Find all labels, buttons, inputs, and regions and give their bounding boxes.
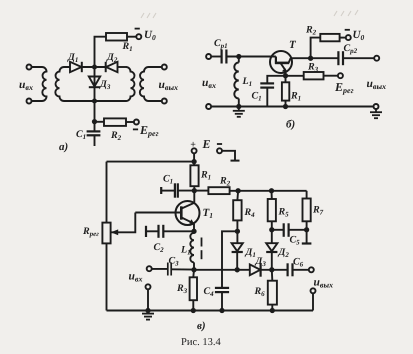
node R4 tap bbox=[236, 189, 239, 192]
transistor T (b) bbox=[270, 51, 292, 73]
node rail R3 junction bbox=[192, 309, 195, 312]
wire R4 top bbox=[236, 191, 239, 200]
node R2 tap (b) bbox=[309, 57, 312, 60]
capacitor C1 (a) plate top bbox=[87, 130, 101, 132]
transformer output winding inner (a) right box edge bbox=[126, 67, 135, 101]
wire R2 to terminal bbox=[126, 121, 134, 123]
wire R3 top bbox=[192, 270, 195, 278]
input terminal bottom (b) bbox=[206, 104, 211, 109]
wire box bottom to R2 node bbox=[94, 101, 96, 131]
wire C1 left lead bbox=[161, 190, 174, 192]
resistor R2 (v) bbox=[208, 187, 229, 194]
wire left branch vertical lower bbox=[106, 243, 108, 310]
wire R1 bottom to node bbox=[193, 186, 195, 203]
diode D1 (v) bbox=[232, 243, 243, 251]
output terminal upper (v) bbox=[309, 267, 314, 272]
wire R2 to terminal bbox=[340, 37, 346, 39]
wire bottom rail (b) bbox=[211, 106, 374, 108]
labels circuit b) bbox=[202, 25, 386, 131]
svg-text:б): б) bbox=[286, 119, 295, 131]
faint scan marks bbox=[141, 10, 358, 18]
capacitor C4 bbox=[215, 287, 229, 289]
wire R2 to top rail right bbox=[230, 190, 307, 192]
wire R7 bottom bbox=[306, 221, 308, 243]
capacitor Cp2 bbox=[337, 51, 339, 65]
node rail C4 junction bbox=[220, 309, 223, 312]
wire R3 branch bbox=[286, 75, 304, 77]
wire input to C3 bbox=[152, 268, 168, 270]
wire R6 top bbox=[271, 270, 274, 281]
node C2 junction bbox=[192, 230, 195, 233]
wire node to R2 bbox=[95, 121, 105, 123]
node R5 tap bbox=[270, 189, 273, 192]
resistor R1 (v) bbox=[190, 165, 198, 186]
node C5/R7 junction bbox=[305, 228, 308, 231]
minus sign above U0 terminal bbox=[135, 28, 140, 30]
node rail input junction bbox=[146, 309, 149, 312]
capacitor C1 (v) terminal bar bbox=[160, 187, 162, 194]
minus sign above U0 (b) bbox=[345, 29, 350, 31]
wire top right segment bbox=[118, 66, 127, 68]
resistor R5 bbox=[268, 199, 276, 221]
terminal minus supply bbox=[217, 148, 222, 153]
resistor R2 (a) bbox=[104, 118, 126, 126]
diode D3 (v) bbox=[250, 264, 260, 275]
node rail emitter junction bbox=[284, 105, 287, 108]
capacitor C1 (a) plate bottom bbox=[87, 134, 101, 136]
transformer output winding outer (a) with leads bbox=[140, 67, 162, 101]
input terminal top (a) bbox=[27, 65, 32, 70]
wire node line to D3 bbox=[194, 269, 250, 271]
node R2/C1 junction (a) bbox=[93, 120, 96, 123]
output terminal lower (v) bbox=[311, 288, 316, 293]
ground under output (b) bbox=[370, 109, 382, 118]
wire D2 to node line bbox=[271, 252, 273, 270]
resistor R1 (b) bbox=[282, 82, 289, 100]
wire R4 to D1 bbox=[236, 220, 238, 243]
wire top horizontal to left branch bbox=[107, 161, 195, 163]
node C4 branch junction bbox=[236, 230, 239, 233]
inductor L1 (v) bbox=[190, 233, 194, 263]
node emitter bottom junction bbox=[192, 268, 195, 271]
wire emitter down bbox=[285, 72, 287, 107]
wire C1 right lead bbox=[178, 190, 195, 192]
wire R3 bottom bbox=[192, 300, 194, 310]
wire bottom rail (v) bbox=[107, 310, 314, 312]
node rail L1 junction bbox=[237, 105, 240, 108]
wire left branch vertical upper bbox=[106, 162, 108, 223]
terminal U0 (a) bbox=[136, 34, 141, 39]
wire node up to R2 bbox=[311, 38, 321, 59]
wire R6 bottom bbox=[271, 305, 273, 311]
terminal E_reg (a) bbox=[134, 120, 139, 125]
node D1 junction bbox=[236, 268, 239, 271]
resistor R4 bbox=[233, 200, 241, 220]
wire top middle segment bbox=[82, 66, 106, 68]
labels circuit a) bbox=[19, 29, 178, 153]
wire from top junction down to D3 bbox=[94, 67, 96, 87]
minus sign above supply terminal bbox=[217, 143, 222, 145]
node D2 junction bbox=[270, 268, 273, 271]
labels circuit v) bbox=[82, 137, 333, 332]
wire base lead bbox=[135, 212, 180, 214]
node top junction (a) bbox=[93, 65, 96, 68]
diode D3 bbox=[89, 77, 100, 87]
terminal bar below R7 bbox=[302, 242, 312, 244]
node C5 tap bbox=[270, 228, 273, 231]
terminal E_reg (b) bbox=[338, 73, 343, 78]
inductor core dashes bbox=[201, 238, 203, 247]
capacitor Cp1 bbox=[221, 50, 223, 64]
wire Cp1 to base bbox=[226, 56, 276, 58]
minus hook end bar bbox=[231, 160, 240, 162]
node L1 tap (b) bbox=[237, 55, 240, 58]
node collector/C1/R2 junction bbox=[193, 189, 196, 192]
capacitor C5 bbox=[283, 223, 285, 237]
output terminal (b) bbox=[374, 56, 379, 61]
wire R7 top bbox=[306, 191, 308, 199]
input terminal bottom (a) bbox=[27, 99, 32, 104]
wire node to L1 bbox=[238, 57, 240, 63]
terminal U0 (b) bbox=[346, 35, 351, 40]
wire riser to R1 bbox=[95, 37, 107, 67]
wire D3 to box bottom bbox=[94, 87, 96, 101]
svg-text:Рис. 13.4: Рис. 13.4 bbox=[181, 337, 221, 348]
wire C5 right lead bbox=[289, 229, 307, 231]
wire C1 bottom stub bbox=[94, 135, 96, 146]
resistor R2 (b) bbox=[320, 34, 339, 41]
capacitor C6 bbox=[287, 263, 289, 276]
resistor R3 (v emitter) bbox=[190, 277, 197, 300]
capacitor C2 bbox=[157, 225, 159, 238]
terminal +E bbox=[192, 148, 197, 153]
wire L1 to rail bbox=[238, 99, 240, 107]
resistor R3 (b) bbox=[304, 72, 324, 79]
wire C2 right lead bbox=[163, 230, 194, 232]
wire C3 to node bbox=[171, 268, 194, 270]
wire R5 top bbox=[271, 191, 273, 199]
node box bottom junction (a) bbox=[93, 99, 96, 102]
transformer secondary winding (a) left box edge bbox=[55, 67, 70, 101]
diode D1 bbox=[70, 62, 82, 72]
node emitter junction (b) bbox=[284, 74, 287, 77]
output terminal top (a) bbox=[162, 65, 167, 70]
input terminal (b) bbox=[206, 54, 211, 59]
wire emitter down to node bbox=[193, 224, 195, 233]
svg-text:+: + bbox=[190, 140, 196, 151]
node top junction (v) bbox=[192, 160, 195, 163]
wire node to R2 bbox=[194, 190, 208, 192]
wire Cp2 to output bbox=[343, 57, 374, 59]
wire L1 to node line bbox=[193, 262, 195, 269]
wire input to Cp1 bbox=[211, 56, 221, 58]
transformer primary winding (a) with leads bbox=[31, 67, 46, 101]
wire D3 to C6 bbox=[261, 269, 288, 271]
wire C4 branch bbox=[222, 231, 237, 287]
capacitor C2 terminal bar bbox=[145, 226, 147, 237]
svg-text:в): в) bbox=[197, 320, 206, 332]
inductor L1 (b) bbox=[234, 63, 238, 99]
output ground terminal (b) bbox=[374, 104, 379, 109]
ground under L1 (b) bbox=[233, 107, 245, 117]
node rail R6 junction bbox=[271, 309, 274, 312]
arrow into R_reg bbox=[111, 229, 118, 235]
wire minus hook bbox=[222, 151, 235, 161]
wire input lower to rail bbox=[147, 289, 149, 310]
resistor R6 bbox=[268, 281, 277, 305]
resistor R1 (a) bbox=[106, 33, 127, 41]
output terminal bottom (a) bbox=[162, 99, 167, 104]
ground at input (v) bbox=[142, 311, 154, 320]
wire C6 to output bbox=[293, 269, 310, 271]
wire C2 left lead bbox=[146, 230, 158, 232]
capacitor C1 (v) bbox=[174, 183, 176, 197]
diode D2 (v) bbox=[266, 243, 277, 251]
capacitor C3 bbox=[167, 263, 169, 276]
input terminal lower (v) bbox=[146, 284, 151, 289]
transistor T1 (v) bbox=[176, 201, 200, 225]
diode D2 bbox=[106, 62, 118, 72]
wire E terminal down bbox=[193, 153, 195, 165]
wire C5 left lead bbox=[272, 229, 284, 231]
wire R3 to terminal bbox=[324, 75, 339, 77]
wire collector to Cp2 bbox=[292, 57, 338, 59]
potentiometer R_reg bbox=[102, 223, 110, 244]
input terminal upper (v) bbox=[147, 266, 152, 271]
wire C4 to rail bbox=[221, 292, 223, 310]
wire R1 to terminal bbox=[127, 36, 137, 38]
wire R5 to D2 bbox=[271, 221, 273, 243]
capacitor C1 (b) bbox=[260, 82, 274, 84]
wire C1 to rail bbox=[266, 88, 268, 107]
wire emitter node to C1 corner bbox=[267, 76, 285, 83]
wire output lower riser bbox=[312, 293, 314, 310]
svg-text:а): а) bbox=[59, 141, 68, 153]
wire D1 to node line bbox=[236, 252, 238, 270]
minus sign below E_reg terminal bbox=[133, 128, 138, 130]
wire box bottom (a) bbox=[64, 100, 126, 102]
svg-text:E: E bbox=[202, 137, 211, 151]
resistor R7 bbox=[303, 199, 311, 222]
wire wiper step bbox=[111, 213, 135, 233]
